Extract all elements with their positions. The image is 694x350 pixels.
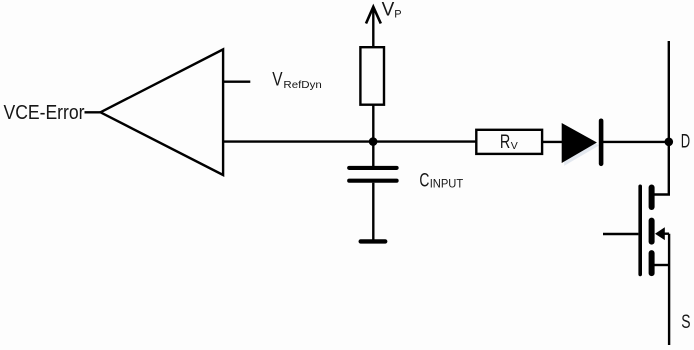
mosfet Q1 body segment [649, 221, 655, 242]
diode D1 shadow [564, 126, 599, 166]
diode D1 anode triangle [562, 123, 597, 163]
mosfet Q1 drain segment [649, 188, 655, 208]
wire capacitor to ground [372, 183, 374, 240]
ground [361, 239, 386, 243]
svg-text:VCE-Error: VCE-Error [4, 102, 85, 124]
diode D1 cathode bar [599, 121, 604, 164]
mosfet Q1 source segment [649, 253, 655, 273]
wire drain rail [654, 41, 669, 195]
svg-text:VRefDyn: VRefDyn [272, 69, 322, 91]
wire U1 output to RV [223, 140, 477, 142]
wire VRefDyn stub [223, 80, 250, 82]
resistor RV [476, 130, 542, 154]
wire node to capacitor [372, 142, 374, 167]
wire gate lead [603, 233, 638, 235]
wire body to source rail [663, 232, 669, 234]
svg-text:VP: VP [382, 0, 402, 21]
node D dot [665, 138, 674, 147]
svg-text:CINPUT: CINPUT [419, 170, 463, 192]
resistor (VP pull-up) [360, 47, 384, 104]
mosfet Q1 gate bar [638, 186, 642, 274]
comparator U1 [100, 49, 223, 175]
power VP arrow [366, 7, 381, 48]
capacitor CINPUT plates [349, 168, 396, 181]
wire input to U1 apex [85, 111, 102, 113]
wire diode to node D [603, 141, 669, 143]
wire resistor to node [372, 105, 374, 142]
svg-text:S: S [681, 311, 690, 333]
wire RV to diode [542, 141, 562, 143]
mosfet Q1 body arrow [655, 227, 665, 240]
wire source rail to S [668, 234, 670, 345]
wire source lead [654, 264, 669, 266]
node junction [369, 137, 378, 146]
svg-text:D: D [681, 131, 690, 152]
